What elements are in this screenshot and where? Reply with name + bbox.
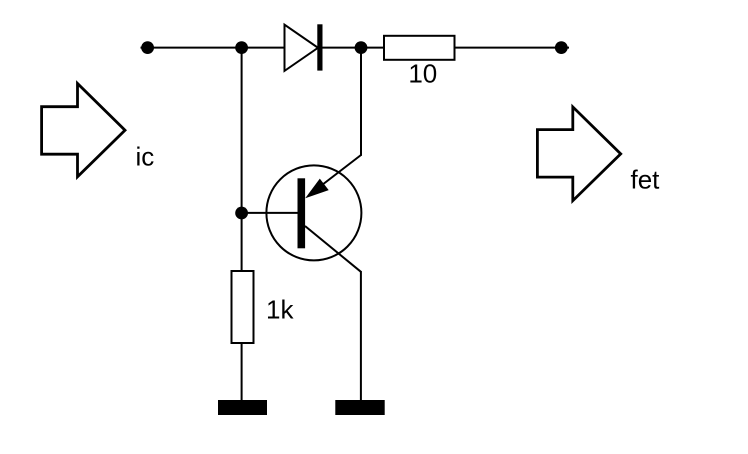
arrow fet bbox=[537, 107, 620, 201]
wire collector vertical to ground bbox=[360, 271, 362, 401]
node dot right bbox=[555, 41, 568, 54]
wire top rail left segment bbox=[141, 47, 285, 49]
node dot left bbox=[141, 41, 154, 54]
node dot diode cathode bbox=[355, 41, 368, 54]
transistor Q1 bbox=[266, 155, 361, 272]
svg-text:ic: ic bbox=[136, 141, 155, 171]
node dot base bbox=[235, 207, 248, 220]
node dot tee bbox=[235, 41, 248, 54]
wire vertical from tee node to 1k resistor bbox=[241, 48, 243, 271]
svg-text:1k: 1k bbox=[266, 295, 294, 325]
ground left bbox=[218, 400, 267, 415]
ground right bbox=[335, 400, 384, 415]
resistor R 10 (horizontal) bbox=[384, 36, 455, 60]
arrow ic bbox=[42, 84, 125, 177]
diode D1 bbox=[285, 24, 323, 71]
wire diode to resistor bbox=[322, 47, 384, 49]
resistor R 1k (vertical) bbox=[232, 271, 254, 343]
svg-text:fet: fet bbox=[631, 165, 661, 195]
wire emitter vertical bbox=[360, 48, 362, 156]
svg-text:10: 10 bbox=[408, 59, 437, 89]
wire base lead bbox=[242, 212, 298, 214]
wire 1k resistor to ground bbox=[241, 343, 243, 401]
wire resistor to right node bbox=[455, 47, 570, 49]
